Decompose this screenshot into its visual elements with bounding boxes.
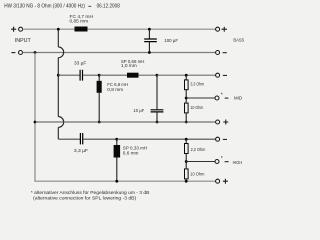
resistor 10 Ohm (high attenuation)	[185, 169, 189, 179]
wire: vertical continues down to high branch	[57, 75, 59, 116]
HIGH + terminal	[216, 179, 228, 184]
node: 10uF to mid ground rail	[156, 121, 159, 124]
wire: 10uF bottom lead	[156, 112, 158, 122]
svg-text:3,3 Ohm: 3,3 Ohm	[190, 82, 204, 87]
svg-text:0,8 mm: 0,8 mm	[107, 87, 123, 93]
svg-text:MID: MID	[234, 95, 243, 100]
node: 100uF to minus rail	[148, 51, 151, 54]
node: branch from + rail down	[57, 28, 60, 31]
inductor FC 6,8 mH (shunt, mid)	[98, 75, 100, 81]
node: minus rail to left ground rail	[34, 51, 37, 54]
resistor 10 Ohm (mid attenuation)	[185, 103, 189, 113]
inductor SP 0,33 mH (shunt, high)	[116, 139, 118, 145]
wire: 10uF top lead	[156, 75, 158, 109]
wire: vertical branch down from + rail	[57, 29, 59, 47]
svg-text:0,6 mm: 0,6 mm	[123, 151, 139, 157]
svg-text:1,0 mm: 1,0 mm	[121, 63, 137, 69]
wire: 100uF bottom lead	[148, 42, 150, 53]
BASS + terminal	[216, 27, 227, 32]
svg-text:2,2 Ohm: 2,2 Ohm	[191, 147, 206, 152]
node: mid wire / 10uF	[156, 74, 159, 77]
capacitor 100 uF (shunt, bass)	[144, 39, 157, 42]
wire: * tap to HIGH* terminal	[186, 161, 215, 163]
svg-text:100 µF: 100 µF	[164, 38, 178, 44]
MID * terminal	[215, 96, 228, 100]
HIGH * terminal	[215, 160, 229, 164]
node: mid wire / FC 6,8	[98, 74, 101, 77]
node: resistor chain to bottom rail	[185, 180, 188, 183]
svg-text:*: *	[221, 93, 223, 99]
inductor FC 4,7 mH (series, bass)	[75, 27, 88, 32]
capacitor 33 uF (series, mid)	[80, 70, 82, 81]
svg-text:HIGH: HIGH	[233, 160, 243, 165]
wire: 10 Ohm to mid ground rail	[185, 113, 187, 122]
wire: high branch horizontal to 3,3uF	[58, 138, 80, 140]
inductor SP 0,68 mH (series, mid)	[127, 73, 139, 78]
wire: * tap to MID* terminal	[186, 97, 215, 99]
svg-text:10 Ohm: 10 Ohm	[190, 105, 203, 110]
wire hop over minus rail	[58, 47, 63, 58]
wire: 3,3uF to SP 0,33 node	[83, 138, 117, 140]
wire: mid ground rail	[35, 121, 216, 123]
node: mid branch	[57, 74, 60, 77]
svg-text:*: *	[221, 156, 223, 162]
MID - terminal	[216, 73, 227, 77]
capacitor 3,3 uF (series, high)	[80, 133, 82, 144]
wire: mid branch horizontal to 33uF	[58, 74, 79, 76]
input + terminal	[11, 27, 23, 32]
svg-text:FC 6,8 mH: FC 6,8 mH	[107, 82, 128, 88]
HIGH - terminal	[216, 137, 227, 141]
node: FC 6,8 to mid ground rail	[98, 121, 101, 124]
svg-text:33 µF: 33 µF	[74, 61, 86, 67]
wire: 33uF to node	[83, 74, 99, 76]
wire: minus rail from input to BASS-	[22, 52, 215, 54]
wire: between resistors / to * node	[185, 154, 187, 168]
svg-text:10 Ohm: 10 Ohm	[190, 171, 204, 176]
node: left rail to mid ground rail	[34, 121, 37, 124]
node: resistor chain to mid ground rail	[185, 121, 188, 124]
svg-text:SP 0,33 mH: SP 0,33 mH	[123, 145, 148, 151]
wire: resistor chain lead	[185, 75, 187, 79]
wire: between resistors / to * node	[185, 90, 187, 103]
svg-text:HW 3/130 NG - 8 Ohm (300 / 400: HW 3/130 NG - 8 Ohm (300 / 4000 Hz)	[4, 4, 85, 10]
input - terminal	[11, 51, 22, 55]
node: high wire / SP 0,33	[115, 138, 118, 141]
node: mid wire / resistor chain	[185, 74, 188, 77]
wire hop over mid ground rail	[58, 117, 63, 128]
svg-text:06.12.2008: 06.12.2008	[97, 4, 120, 10]
node: mid * tap	[185, 97, 188, 100]
node: high wire / resistor chain	[185, 138, 188, 141]
resistor 2,2 Ohm (high attenuation)	[185, 144, 189, 154]
wire: bottom ground rail	[34, 180, 215, 182]
svg-text:INPUT: INPUT	[15, 38, 31, 44]
wire: mid wire to MID- terminal	[157, 74, 216, 76]
svg-text:3,3 µF: 3,3 µF	[74, 148, 88, 154]
capacitor 10 uF (shunt, mid)	[151, 110, 164, 112]
svg-text:0,85 mm: 0,85 mm	[70, 18, 89, 24]
BASS - terminal	[216, 51, 227, 55]
node: SP 0,33 to bottom rail	[115, 180, 118, 183]
svg-text:BASS: BASS	[233, 38, 244, 43]
wire: mid wire to SP 0,68	[99, 74, 127, 76]
node: high * tap	[185, 160, 188, 163]
node: top wire to 100uF	[148, 28, 151, 31]
wire: SP 0,68 to 10uF node	[139, 74, 158, 76]
wire: 100uF top lead	[148, 29, 150, 39]
svg-text:(alternative connection for SP: (alternative connection for SPL lowering…	[33, 195, 136, 200]
resistor 3,3 Ohm (mid attenuation)	[185, 80, 189, 90]
wire: high wire to HIGH- terminal	[117, 138, 216, 140]
wire: top (+) rail from input to BASS+	[23, 28, 216, 30]
wire: left ground rail	[34, 53, 36, 182]
wire: 10 Ohm to bottom rail	[185, 179, 187, 181]
svg-text:10 µF: 10 µF	[133, 108, 144, 114]
wire: resistor chain lead	[185, 139, 187, 143]
MID + terminal	[216, 120, 229, 125]
